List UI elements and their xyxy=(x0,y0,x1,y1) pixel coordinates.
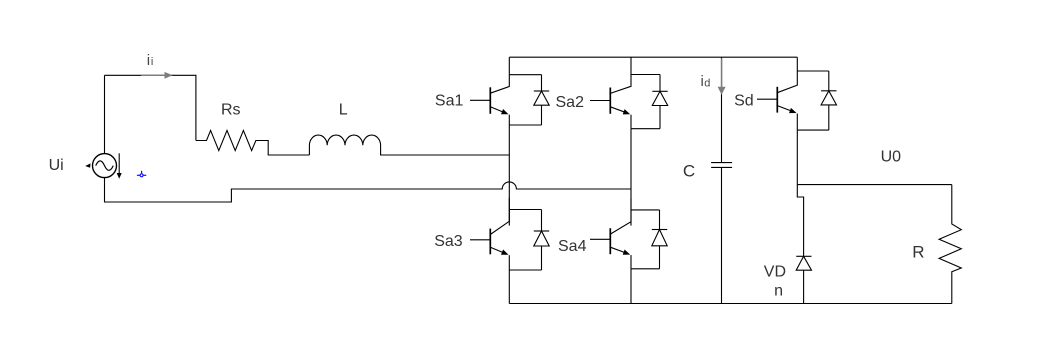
svg-text:n: n xyxy=(774,283,783,300)
svg-text:R: R xyxy=(912,242,924,261)
svg-text:VD: VD xyxy=(764,264,786,281)
svg-text:Sa1: Sa1 xyxy=(435,93,464,110)
svg-text:Sa2: Sa2 xyxy=(556,94,585,111)
svg-text:Ui: Ui xyxy=(49,157,64,174)
svg-text:Sd: Sd xyxy=(734,93,754,110)
svg-text:i: i xyxy=(151,56,153,68)
svg-text:Sa3: Sa3 xyxy=(434,233,463,250)
svg-text:Rs: Rs xyxy=(221,102,241,119)
svg-text:i: i xyxy=(147,52,150,69)
svg-text:Sa4: Sa4 xyxy=(558,238,587,255)
svg-text:C: C xyxy=(683,162,695,181)
svg-text:L: L xyxy=(339,102,348,119)
svg-text:d: d xyxy=(704,78,710,90)
svg-text:U0: U0 xyxy=(881,149,902,166)
